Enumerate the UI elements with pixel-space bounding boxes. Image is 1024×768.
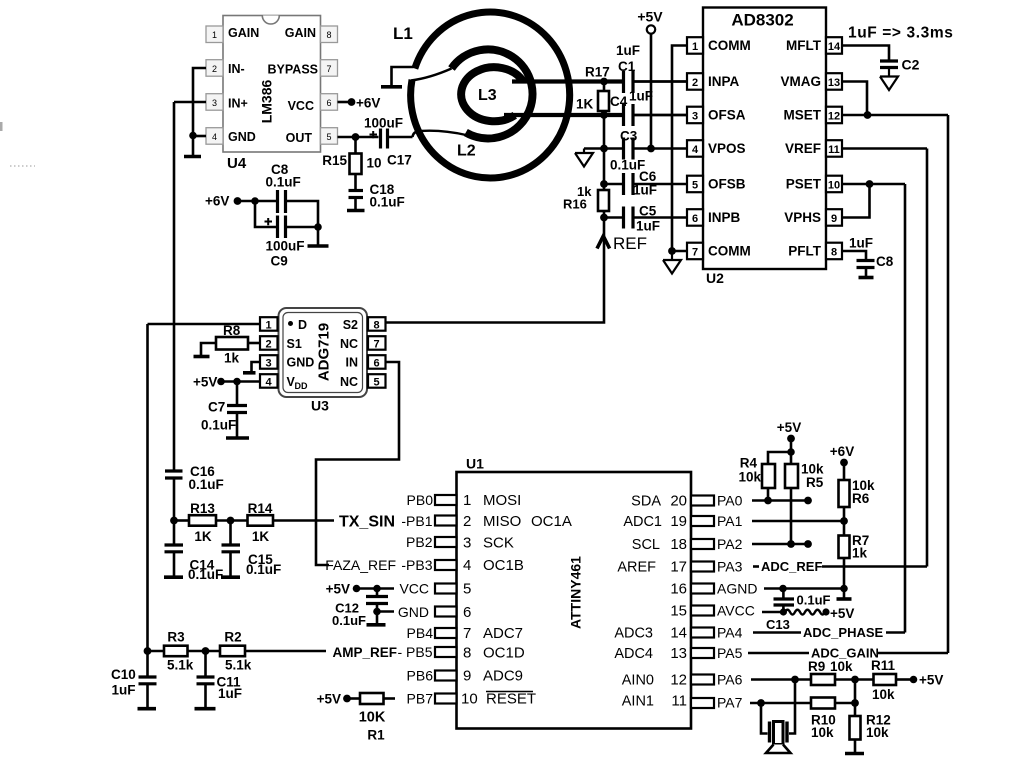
ground bar under R12 <box>845 752 864 756</box>
svg-text:9: 9 <box>463 668 471 685</box>
ground bar under C8/C9 <box>317 227 320 245</box>
svg-text:VPOS: VPOS <box>708 141 746 156</box>
svg-text:PA4: PA4 <box>717 625 743 641</box>
node R3 left junction on line B <box>144 647 152 655</box>
svg-text:10: 10 <box>367 156 382 171</box>
svg-text:S2: S2 <box>343 318 358 332</box>
svg-text:PA2: PA2 <box>717 536 743 552</box>
resistor R5 <box>785 462 824 545</box>
svg-text:OFSA: OFSA <box>708 108 746 123</box>
svg-text:9: 9 <box>831 213 837 225</box>
svg-text:OFSB: OFSB <box>708 177 746 192</box>
svg-text:0.1uF: 0.1uF <box>370 195 405 210</box>
resistor R12 <box>850 713 891 753</box>
wire PA5 / net ADC_GAIN <box>748 652 809 655</box>
svg-text:3: 3 <box>463 535 471 552</box>
svg-text:5: 5 <box>326 132 331 142</box>
svg-text:R9: R9 <box>808 659 825 674</box>
svg-text:NC: NC <box>340 337 358 351</box>
svg-text:1k: 1k <box>852 546 868 561</box>
ground bar under R7 <box>837 597 852 601</box>
svg-text:L1: L1 <box>393 24 413 43</box>
U2 pin 11 box <box>826 140 842 157</box>
svg-text:1uF: 1uF <box>218 686 242 701</box>
U4 pin 7 box <box>321 60 338 76</box>
svg-text:R3: R3 <box>167 630 185 645</box>
svg-text:R11: R11 <box>871 658 896 673</box>
svg-text:2: 2 <box>265 339 271 351</box>
ground triangle below COMM <box>663 251 681 274</box>
svg-text:1uF: 1uF <box>629 89 653 104</box>
svg-text:1K: 1K <box>194 529 212 544</box>
resistor R2 <box>188 630 252 673</box>
U3 pin 3 box <box>260 355 278 369</box>
resistor R13 <box>174 501 216 544</box>
wire TX_SIN <box>273 519 334 522</box>
wire GND <box>377 610 394 613</box>
svg-text:C1: C1 <box>618 59 636 74</box>
wire PA2 <box>752 543 808 546</box>
wire VCC <box>357 587 395 590</box>
capacitor C14 <box>164 521 223 582</box>
svg-text:R8: R8 <box>223 323 241 338</box>
svg-text:0.1uF: 0.1uF <box>797 593 831 608</box>
svg-text:1k: 1k <box>224 351 240 366</box>
svg-text:VPHS: VPHS <box>784 210 821 225</box>
svg-text:3: 3 <box>692 111 698 123</box>
svg-text:0.1uF: 0.1uF <box>246 562 281 577</box>
svg-text:13: 13 <box>828 77 840 89</box>
capacitor C17 (100uF polarized) <box>364 116 413 168</box>
svg-text:14: 14 <box>670 625 687 642</box>
capacitor C2 <box>880 57 920 73</box>
resistor R3 <box>148 630 194 673</box>
svg-text:16: 16 <box>670 581 687 598</box>
svg-text:C2: C2 <box>902 57 920 73</box>
svg-text:SCL: SCL <box>632 537 660 553</box>
resistor R15 <box>322 137 381 190</box>
wire VPHS up to PSET <box>842 184 870 218</box>
svg-text:10: 10 <box>461 691 478 708</box>
wire ADC_GAIN vertical <box>947 115 950 653</box>
U4 pin 4 box <box>206 128 223 145</box>
svg-text:GAIN: GAIN <box>228 26 259 40</box>
svg-text:AD8302: AD8302 <box>731 11 793 30</box>
svg-text:- PB5: - PB5 <box>397 644 432 660</box>
U3 pin 5 box <box>368 374 386 388</box>
wire PA3 / net ADC_REF <box>753 565 759 568</box>
svg-text:U2: U2 <box>706 270 724 286</box>
svg-text:ADC1: ADC1 <box>623 514 662 530</box>
svg-text:C8: C8 <box>876 254 894 269</box>
svg-text:11: 11 <box>828 144 840 156</box>
svg-text:PFLT: PFLT <box>788 244 821 259</box>
svg-text:AVCC: AVCC <box>717 603 755 619</box>
svg-text:12: 12 <box>670 672 687 689</box>
wire OUT <box>338 136 379 139</box>
svg-text:6: 6 <box>373 358 379 370</box>
resistor R7 <box>839 521 870 598</box>
U4 pin 2 box <box>206 60 223 76</box>
svg-text:5: 5 <box>692 180 698 192</box>
svg-text:PA3: PA3 <box>717 559 743 575</box>
svg-text:D: D <box>298 318 307 332</box>
capacitor C18 <box>347 182 405 211</box>
svg-text:SCK: SCK <box>483 535 514 552</box>
svg-text:5: 5 <box>373 377 379 389</box>
resistor R10 <box>811 698 855 741</box>
svg-text:3: 3 <box>212 98 217 108</box>
svg-text:PA0: PA0 <box>717 493 743 509</box>
svg-text:INPA: INPA <box>708 74 740 89</box>
svg-text:-PB3: -PB3 <box>401 557 432 573</box>
svg-text:7: 7 <box>692 247 698 259</box>
wire AGND <box>764 587 844 590</box>
wire R8 left to mini ground <box>201 343 216 355</box>
svg-text:100uF: 100uF <box>364 116 403 131</box>
svg-text:R2: R2 <box>224 630 241 645</box>
svg-text:AREF: AREF <box>617 560 656 576</box>
svg-text:FAZA_REF: FAZA_REF <box>325 557 396 573</box>
capacitor C9 100uF polarized <box>265 216 305 269</box>
svg-text:8: 8 <box>373 320 379 332</box>
svg-text:AMP_REF: AMP_REF <box>332 645 397 660</box>
svg-text:1uF: 1uF <box>849 236 873 251</box>
resistor R14 <box>216 501 273 544</box>
svg-text:14: 14 <box>828 41 841 53</box>
svg-text:C3: C3 <box>620 129 638 144</box>
svg-text:AIN0: AIN0 <box>622 673 654 689</box>
svg-text:SDA: SDA <box>631 494 661 510</box>
U3 pin 8 box <box>368 317 386 331</box>
node OUT junction <box>352 133 360 141</box>
svg-text:8: 8 <box>326 30 331 40</box>
svg-text:4: 4 <box>692 144 699 156</box>
svg-text:6: 6 <box>463 604 471 621</box>
svg-text:ADC_REF: ADC_REF <box>761 559 822 574</box>
svg-text:10k: 10k <box>830 659 853 674</box>
wire +6V to C8 <box>238 200 278 203</box>
wire PA6 <box>751 678 811 681</box>
svg-text:R16: R16 <box>563 197 587 212</box>
U3 pin 4 box <box>260 374 278 388</box>
node COMM junction <box>668 247 676 255</box>
svg-text:NC: NC <box>340 375 358 389</box>
ground bar under U4 GND <box>192 136 195 156</box>
svg-text:ATTINY461: ATTINY461 <box>568 556 584 629</box>
svg-text:1: 1 <box>265 320 271 332</box>
U2 pin 10 box <box>826 176 842 193</box>
U2 pin 3 box <box>687 107 703 124</box>
svg-text:PA5: PA5 <box>717 645 743 661</box>
ground bar at L1 <box>381 85 402 89</box>
svg-text:ADC3: ADC3 <box>614 626 653 642</box>
svg-text:TX_SIN: TX_SIN <box>339 514 395 531</box>
svg-text:1uF: 1uF <box>616 43 640 58</box>
svg-text:1: 1 <box>463 492 471 509</box>
wire +5V down to VPOS <box>650 34 653 149</box>
svg-text:VCC: VCC <box>399 581 429 597</box>
svg-text:1uF: 1uF <box>112 683 136 698</box>
svg-text:IN-: IN- <box>228 62 245 76</box>
svg-text:INPB: INPB <box>708 210 741 225</box>
speaker LS1 <box>761 680 795 754</box>
node GND junction <box>373 608 381 616</box>
U2 pin 14 box <box>826 37 842 54</box>
U4 pin 3 box <box>206 94 223 111</box>
wire PA7 <box>750 702 811 705</box>
svg-text:COMM: COMM <box>708 244 751 259</box>
svg-text:MISO: MISO <box>483 513 521 530</box>
svg-text:C13: C13 <box>766 617 790 632</box>
wire VREF to ADC_REF vertical <box>842 147 927 150</box>
wire GND pin <box>193 135 206 138</box>
svg-text:L2: L2 <box>457 143 476 160</box>
svg-text:-PB1: -PB1 <box>401 513 432 529</box>
U3 pin 2 box <box>260 336 278 350</box>
svg-text:8: 8 <box>831 247 837 259</box>
wire IN- to GND junction <box>193 68 206 136</box>
svg-text:C10: C10 <box>111 667 136 682</box>
svg-text:U4: U4 <box>227 155 247 172</box>
ground triangle at VPOS left <box>575 149 593 167</box>
wire line A vertical (IN+ net) <box>173 102 176 521</box>
U2 pin 9 box <box>826 209 842 226</box>
capacitor C7 <box>201 382 249 439</box>
svg-text:ADC9: ADC9 <box>483 668 523 685</box>
svg-text:10K: 10K <box>359 710 386 726</box>
svg-text:U3: U3 <box>311 398 329 414</box>
ground triangle below C2 <box>880 69 898 91</box>
U3 pin 7 box <box>368 336 386 350</box>
svg-text:19: 19 <box>670 513 687 530</box>
U2 pin 8 box <box>826 243 842 260</box>
resistor R16 <box>563 184 609 218</box>
svg-text:VREF: VREF <box>785 141 821 156</box>
svg-text:OC1D: OC1D <box>483 645 525 662</box>
svg-text:1K: 1K <box>576 97 594 112</box>
svg-text:5: 5 <box>463 581 471 598</box>
svg-text:+5V: +5V <box>919 673 943 688</box>
svg-text:7: 7 <box>373 339 379 351</box>
resistor R9 <box>808 659 874 685</box>
svg-text:PA6: PA6 <box>717 672 743 688</box>
svg-text:OUT: OUT <box>286 131 313 145</box>
svg-text:R14: R14 <box>248 501 273 516</box>
wire +5V to R4/R5 <box>768 439 791 465</box>
svg-text:6: 6 <box>326 98 331 108</box>
svg-text:0.1uF: 0.1uF <box>189 477 224 492</box>
capacitor C1 <box>616 43 640 93</box>
IC U2 AD8302 body <box>703 8 826 270</box>
node R10/R12 junction <box>851 699 859 707</box>
resistor R4 <box>738 456 775 501</box>
wire L3 lower output <box>504 113 622 117</box>
svg-text:R15: R15 <box>322 153 347 168</box>
svg-text:0.1uF: 0.1uF <box>201 418 236 433</box>
svg-text:4: 4 <box>463 557 471 574</box>
capacitor C10 <box>111 651 157 709</box>
node IN-/GND junction <box>189 132 197 140</box>
wire PA0 <box>752 499 808 502</box>
svg-text:PA7: PA7 <box>717 695 743 711</box>
svg-text:1: 1 <box>692 41 698 53</box>
U2 pin 6 box <box>687 209 703 226</box>
svg-text:LM386: LM386 <box>259 80 275 124</box>
U2 pin 7 box <box>687 243 703 260</box>
node REF arrow <box>597 236 610 249</box>
MCU U1 ATTINY461 body <box>457 456 692 729</box>
resistor R17 <box>576 65 610 116</box>
svg-text:PB2: PB2 <box>406 534 433 550</box>
svg-text:IN+: IN+ <box>228 97 248 111</box>
wire PA1 <box>752 520 844 523</box>
svg-text:MOSI: MOSI <box>483 492 521 509</box>
capacitor C15 <box>221 521 281 578</box>
wire AMP_REF <box>245 650 326 653</box>
svg-text:0.1uF: 0.1uF <box>332 613 366 628</box>
wire COMM bus pins 1-7 <box>672 46 687 252</box>
coil L3 (inner ring) <box>461 67 523 121</box>
U1 left pin labels <box>406 492 433 684</box>
svg-text:+5V: +5V <box>830 606 854 621</box>
wire U3 pin3 GND stub <box>252 362 261 372</box>
U2 pin 4 box <box>687 140 703 157</box>
svg-text:AGND: AGND <box>717 581 757 597</box>
svg-text:10k: 10k <box>866 725 889 740</box>
wire line B vertical <box>146 324 149 651</box>
capacitor C13 <box>766 589 831 633</box>
svg-text:3: 3 <box>265 358 271 370</box>
svg-text:10: 10 <box>828 180 840 192</box>
svg-text:PB6: PB6 <box>407 668 434 684</box>
svg-text:+6V: +6V <box>356 96 380 111</box>
U2 pin 12 box <box>826 107 842 124</box>
svg-text:BYPASS: BYPASS <box>268 63 318 77</box>
svg-text:DD: DD <box>295 381 308 391</box>
U3 pin 1 box <box>260 317 278 331</box>
U4 pin 6 box <box>321 94 338 111</box>
svg-text:MSET: MSET <box>783 108 821 123</box>
svg-text:R5: R5 <box>806 475 824 490</box>
node R3/R2 junction <box>202 647 210 655</box>
wire PA4 / net ADC_PHASE <box>753 631 801 634</box>
svg-text:PB4: PB4 <box>407 625 434 641</box>
wire INPA segment after C1 <box>635 80 688 83</box>
U3 pin 6 box <box>368 355 386 369</box>
svg-text:+5V: +5V <box>777 420 801 435</box>
op-amp U4 LM386 body <box>223 16 321 153</box>
wire PSET to ADC_PHASE vertical <box>842 183 905 186</box>
svg-text:10k: 10k <box>872 687 895 702</box>
svg-text:1K: 1K <box>252 529 270 544</box>
capacitor C16 <box>165 464 224 492</box>
node R13 left junction <box>170 517 178 525</box>
svg-text:PA1: PA1 <box>717 513 743 529</box>
svg-text:8: 8 <box>463 645 471 662</box>
svg-text:REF: REF <box>613 234 647 253</box>
U4 pin 8 box <box>321 26 338 43</box>
svg-text:VCC: VCC <box>288 99 314 113</box>
capacitor C3 <box>610 129 645 173</box>
svg-text:R13: R13 <box>190 501 215 516</box>
U1 right pin boxes 20-11 <box>691 496 714 709</box>
wire OFSA segment after C4 <box>635 114 688 117</box>
svg-text:1uF => 3.3ms: 1uF => 3.3ms <box>848 25 953 42</box>
wire MFLT to C2 <box>842 46 889 61</box>
node on INPB line <box>600 214 608 222</box>
svg-text:ADC4: ADC4 <box>614 646 653 662</box>
capacitor C11 <box>195 651 243 709</box>
wire VMAG down to MSET <box>842 82 867 116</box>
node PSET junction <box>866 180 874 188</box>
ground bar under C12 <box>376 612 379 624</box>
wire VPOS line <box>584 147 687 150</box>
coil L1 (outer ring) <box>411 12 570 178</box>
wire AVCC with hand-drawn squiggle to +5V <box>762 611 783 614</box>
resistor R1 <box>347 693 395 743</box>
wire MSET to ADC_GAIN vertical <box>842 114 948 117</box>
U2 pin 2 box <box>687 73 703 90</box>
svg-text:4: 4 <box>212 132 217 142</box>
svg-text:OC1B: OC1B <box>483 557 524 574</box>
wire L1 end to L2 end (taper) <box>411 69 452 81</box>
svg-text:MFLT: MFLT <box>786 38 822 53</box>
capacitor C4 <box>610 89 653 127</box>
U2 pin 13 box <box>826 73 842 90</box>
svg-text:20: 20 <box>670 493 687 510</box>
U4 pin 5 box <box>321 128 338 145</box>
node +5V terminal dot <box>910 676 918 684</box>
svg-text:4: 4 <box>265 377 272 389</box>
wire OFSB line <box>604 183 687 186</box>
wire L1 to ground <box>392 67 414 86</box>
capacitor C8 0.1uF <box>266 162 301 213</box>
node on OFSB line <box>600 180 608 188</box>
svg-text:GND: GND <box>228 130 256 144</box>
svg-text:R1: R1 <box>367 728 385 743</box>
svg-text:5.1k: 5.1k <box>225 658 252 673</box>
svg-text:COMM: COMM <box>708 38 751 53</box>
coil L2 (middle ring) <box>452 49 533 138</box>
svg-text:PB7: PB7 <box>407 691 434 707</box>
svg-text:0.1uF: 0.1uF <box>266 175 301 190</box>
resistor R11 <box>871 658 910 702</box>
wire VDD <box>221 380 260 383</box>
svg-text:100uF: 100uF <box>266 239 305 254</box>
svg-text:R17: R17 <box>585 65 610 80</box>
svg-text:13: 13 <box>670 645 687 662</box>
capacitor C5 <box>624 204 661 234</box>
svg-text:IN: IN <box>346 356 359 370</box>
svg-text:GND: GND <box>398 604 429 620</box>
node VMAG/MSET junction <box>864 111 872 119</box>
svg-text:U1: U1 <box>466 456 484 472</box>
wire vertical node chain <box>603 115 606 190</box>
svg-text:7: 7 <box>463 625 471 642</box>
svg-text:12: 12 <box>828 111 840 123</box>
wire REF down and to U3 pin8 <box>386 218 605 323</box>
svg-text:C9: C9 <box>271 254 288 269</box>
svg-text:S1: S1 <box>287 337 302 351</box>
capacitor C12 <box>332 589 388 628</box>
wire ADC_REF vertical <box>926 149 929 567</box>
svg-text:10k: 10k <box>738 470 761 485</box>
wire C8 right to corner <box>286 201 318 227</box>
svg-text:1uF: 1uF <box>636 219 660 234</box>
wire lower branch to C9 <box>255 201 277 227</box>
svg-text:PSET: PSET <box>786 177 822 192</box>
